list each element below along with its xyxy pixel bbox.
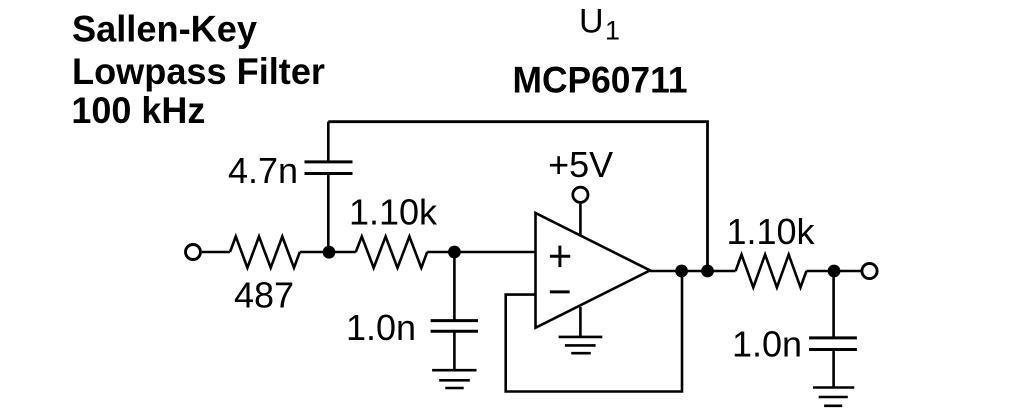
node E junction (828, 265, 841, 278)
capacitor C1 4.7n (228, 150, 353, 191)
ground: op-amp (559, 307, 603, 353)
ground: C3 (813, 388, 854, 406)
wire: C1 to feedback top rail (327, 122, 330, 162)
svg-text:MCP60711: MCP60711 (513, 60, 688, 101)
wire: node B down to C2 (453, 252, 456, 321)
svg-text:4.7n: 4.7n (228, 150, 298, 191)
wire: R1 to node A (300, 251, 329, 254)
svg-text:100 kHz: 100 kHz (71, 90, 205, 131)
output terminal (862, 263, 877, 278)
resistor R1 487 (230, 237, 300, 316)
input terminal (186, 245, 201, 260)
wire: node E to output terminal (834, 270, 862, 273)
wire: node A to R2 (328, 251, 356, 254)
resistor R2 1.10k (349, 191, 438, 267)
title: Sallen-Key Lowpass Filter 100 kHz (71, 9, 325, 131)
node D junction (feedback) (701, 265, 714, 278)
ground: C2 (432, 370, 476, 388)
node A junction (323, 246, 336, 259)
wire: R3 to node E (806, 270, 834, 273)
wire: node E down to C3 (832, 271, 835, 338)
svg-text:1.10k: 1.10k (726, 211, 815, 252)
wire: R2 to node B (427, 251, 454, 254)
svg-text:U: U (579, 2, 604, 40)
svg-text:Sallen-Key: Sallen-Key (72, 9, 257, 50)
svg-text:487: 487 (234, 275, 294, 316)
wire: op-amp output to node D (650, 270, 714, 273)
wire: node A up to C1 (327, 174, 330, 253)
capacitor C3 1.0n (732, 324, 857, 365)
wire: C3 to ground (832, 350, 835, 388)
feedback wire: top rail to node D (328, 122, 707, 271)
wire: C2 to ground (453, 331, 456, 370)
resistor R3 1.10k (726, 211, 815, 287)
node C junction (output) (675, 265, 688, 278)
op-amp U1 (536, 213, 651, 328)
svg-text:1.10k: 1.10k (349, 191, 438, 232)
node B junction (448, 246, 461, 259)
wire: node B to op-amp non-inverting input (454, 251, 535, 254)
svg-text:1: 1 (605, 16, 620, 46)
feedback wire: output to inverting input (506, 271, 682, 392)
wire: input terminal to R1 (202, 251, 230, 254)
supply terminal +5V (548, 144, 613, 236)
wire: node D to R3 (708, 270, 736, 273)
svg-text:+5V: +5V (548, 144, 613, 185)
svg-text:Lowpass Filter: Lowpass Filter (72, 51, 325, 92)
svg-text:1.0n: 1.0n (732, 324, 802, 365)
capacitor C2 1.0n (346, 307, 478, 348)
svg-text:1.0n: 1.0n (346, 307, 416, 348)
op-amp U1 reference designator (579, 2, 620, 45)
